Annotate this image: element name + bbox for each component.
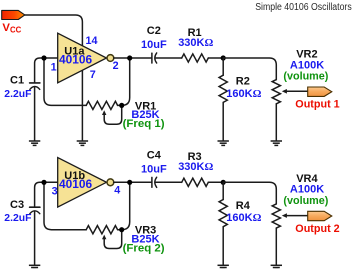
potentiometer VR1 resistor body [86,101,117,109]
wiper loop of VR3 [104,230,122,249]
wiper arrow of VR3 [102,235,106,240]
wire C1 to ground [34,87,36,141]
svg-text:A100K: A100K [290,59,324,71]
junction dot input node [41,55,46,60]
wiper arrow of VR4 [282,213,287,218]
wire feedback node down to VR3 left end [44,182,86,229]
wire VR4 to ground [275,228,277,265]
wiper arrow of VR1 [102,110,106,115]
wire R1 to node [208,57,223,59]
svg-text:(Freq 1): (Freq 1) [123,118,165,130]
svg-text:1: 1 [51,61,57,73]
wiper loop of VR1 [104,105,122,124]
wire U1b output to capacitor C4 [114,181,152,183]
svg-text:A100K: A100K [290,184,324,196]
junction dot output node pin 2 [127,55,132,60]
wire node to capacitor C1 [35,58,44,82]
svg-text:(volume): (volume) [283,71,328,83]
wire R2 to ground [222,102,224,140]
resistor R2 [219,75,227,102]
svg-text:Simple 40106 Oscillators: Simple 40106 Oscillators [255,2,352,13]
wire R3 to node [208,181,223,183]
inverter gate U1a triangle [58,33,107,83]
svg-text:2.2uF: 2.2uF [4,213,31,224]
svg-text:40106: 40106 [59,53,92,67]
svg-text:R2: R2 [236,76,250,88]
ground (below R2) [218,141,229,145]
wire C3 to ground [34,211,36,265]
ground (below C1) [29,141,40,145]
svg-text:Output 1: Output 1 [295,99,339,111]
svg-text:330KΩ: 330KΩ [178,161,213,173]
capacitor C3 [30,207,40,214]
svg-text:(volume): (volume) [283,195,328,207]
capacitor C2 [152,53,157,63]
wire node down to resistor R2 [222,58,224,75]
wire R4 to ground [222,227,224,265]
wire C4 to resistor R3 [156,181,182,183]
ground (below pin 7) [77,141,88,145]
wire Vcc to U1a pin 14 [25,15,83,47]
inverter gate U1b triangle [58,158,107,208]
inverter bubble at U1b output [107,179,114,186]
svg-text:4: 4 [114,185,120,197]
potentiometer VR4 resistor body [272,204,280,228]
wire pin 2 node down to VR1 right end [122,58,130,105]
wire VR2 to ground [275,104,277,141]
resistor R4 [219,200,227,227]
capacitor C4 [152,177,157,187]
junction dot VR3 right end [119,227,124,232]
svg-text:330KΩ: 330KΩ [178,37,213,49]
junction dot output node pin 4 [127,180,132,185]
ground (below C3) [29,265,40,269]
wire node to volume pot VR4 [223,182,276,204]
svg-text:40106: 40106 [59,177,92,191]
ground (below VR2) [271,141,282,145]
output flag Output 2 [308,211,332,220]
wire VR4 wiper to output flag [287,215,308,217]
wire U1a output to capacitor C2 [114,57,152,59]
svg-text:3: 3 [52,186,58,198]
wiper arrow of VR2 [282,89,287,94]
wire C2 to resistor R1 [156,57,182,59]
svg-text:7: 7 [90,69,96,81]
junction dot node R3/R4 [221,180,226,185]
svg-text:R4: R4 [236,200,251,212]
wire node down to resistor R4 [222,182,224,199]
svg-text:2: 2 [113,60,119,72]
potentiometer VR3 resistor body [86,226,117,234]
svg-text:2.2uF: 2.2uF [4,89,31,100]
power flag Vcc [2,10,25,19]
svg-text:Output 2: Output 2 [295,223,339,235]
capacitor C1 [30,83,40,90]
wire node to volume pot VR2 [223,58,276,80]
ground (below VR4) [271,265,282,269]
svg-text:(Freq 2): (Freq 2) [123,243,165,255]
wire U1a pin 7 to ground [81,70,83,141]
ground (below R4) [218,265,229,269]
wire feedback node down to VR1 left end [44,58,86,105]
wire VR2 wiper to output flag [287,90,308,92]
junction dot node R1/R2 [221,55,226,60]
svg-text:160KΩ: 160KΩ [226,88,261,100]
svg-text:C3: C3 [10,199,24,211]
wire node-U1ain to pin 1 [44,57,58,59]
svg-text:10uF: 10uF [141,39,167,51]
wire pin 4 node down to VR3 right end [122,182,130,229]
resistor R3 [182,178,209,186]
svg-text:C2: C2 [147,25,161,37]
wire node-U1bin to pin 3 [44,181,58,183]
svg-text:14: 14 [86,35,98,47]
svg-text:10uF: 10uF [141,163,167,175]
resistor R1 [182,54,209,62]
svg-text:C4: C4 [147,149,162,161]
svg-text:C1: C1 [10,75,24,87]
potentiometer VR2 resistor body [272,80,280,104]
junction dot VR1 right end [119,103,124,108]
junction dot input node [41,180,46,185]
wire node to capacitor C3 [35,182,44,206]
svg-text:160KΩ: 160KΩ [226,212,261,224]
inverter bubble at U1a output [107,55,114,62]
output flag Output 1 [308,87,332,96]
